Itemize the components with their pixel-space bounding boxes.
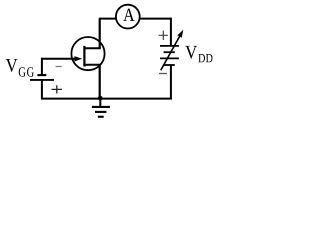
variable arrow shaft bbox=[161, 36, 180, 71]
label VDD subscript D1 bbox=[198, 54, 205, 62]
variable arrow head bbox=[177, 30, 183, 38]
label VDD letter V bbox=[185, 46, 197, 59]
ammeter A1 letter A bbox=[123, 9, 134, 21]
battery VDD plate 2 short bbox=[164, 51, 175, 53]
sign minus VDD bbox=[159, 73, 167, 75]
transistor Q1 source stub bbox=[84, 64, 101, 66]
battery VGG short plate negative bbox=[37, 74, 46, 76]
battery VGG bottom stem bbox=[41, 81, 43, 100]
wire source vertical bbox=[99, 65, 101, 99]
ground bar 3 bbox=[98, 116, 104, 118]
ground bar 2 bbox=[95, 111, 106, 113]
ground stem bbox=[99, 98, 101, 106]
transistor Q1 circle bbox=[71, 37, 104, 70]
ground bar 1 bbox=[92, 106, 110, 108]
battery VDD plate 4 short bbox=[164, 64, 175, 66]
wire right branch bottom bbox=[170, 65, 172, 99]
label VDD subscript D2 bbox=[206, 54, 213, 62]
battery VDD plate 3 long bbox=[160, 57, 179, 59]
wire right branch top bbox=[170, 18, 172, 46]
label VGG subscript G2 bbox=[27, 67, 34, 76]
wire gate bbox=[41, 58, 77, 60]
ammeter A1 circle bbox=[116, 5, 140, 29]
sign plus VGG bbox=[52, 85, 63, 93]
transistor Q1 channel bar bbox=[83, 46, 85, 67]
label VGG letter V bbox=[6, 59, 18, 72]
battery VDD plate 1 long bbox=[160, 45, 179, 47]
battery VGG long plate positive bbox=[30, 79, 54, 81]
label VGG subscript G1 bbox=[19, 67, 26, 76]
transistor Q1 gate arrowhead bbox=[74, 56, 82, 61]
junction dot bbox=[98, 96, 103, 101]
transistor Q1 drain stub bbox=[84, 47, 101, 49]
sign minus VGG bbox=[56, 66, 62, 68]
wire bottom rail bbox=[42, 98, 172, 100]
sign plus VDD bbox=[159, 31, 168, 40]
battery VGG top stem bbox=[41, 58, 43, 74]
wire drain vertical bbox=[99, 19, 101, 49]
wire top rail bbox=[99, 18, 171, 20]
